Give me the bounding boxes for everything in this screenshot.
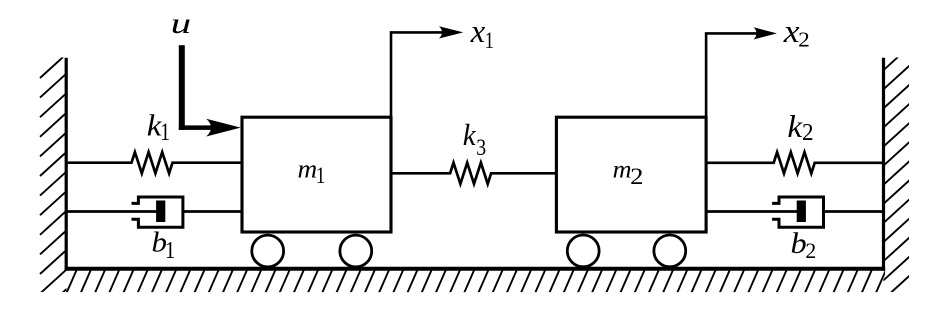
floor hatching <box>67 269 887 293</box>
svg-text:u: u <box>171 7 192 40</box>
wheel m2 left <box>567 235 599 267</box>
mass m2 <box>556 117 706 232</box>
wheel m1 left <box>252 235 284 267</box>
spring k2 <box>706 152 883 173</box>
svg-text:1: 1 <box>160 119 170 146</box>
right wall hatching <box>882 47 910 301</box>
spring k3 <box>391 163 556 184</box>
svg-text:k: k <box>463 118 477 152</box>
svg-text:2: 2 <box>802 120 814 146</box>
label b2 <box>791 228 817 263</box>
damper b2 <box>706 197 883 227</box>
label k1 <box>147 107 170 146</box>
svg-text:m: m <box>298 154 318 184</box>
wheel m2 right <box>654 235 686 267</box>
svg-text:2: 2 <box>798 28 810 52</box>
svg-text:1: 1 <box>485 28 494 53</box>
wheel m1 right <box>340 235 372 267</box>
mass m1 <box>242 117 391 232</box>
floor <box>65 267 886 271</box>
svg-text:2: 2 <box>630 164 643 189</box>
displacement arrow x1 <box>391 26 463 117</box>
label k3 <box>463 118 486 160</box>
force arrow u <box>179 45 241 136</box>
label m1 <box>298 154 326 189</box>
svg-text:3: 3 <box>476 134 486 160</box>
spring k1 <box>66 152 242 173</box>
svg-text:m: m <box>613 157 632 184</box>
label b1 <box>152 228 176 264</box>
svg-text:x: x <box>470 14 486 50</box>
svg-text:2: 2 <box>805 238 816 263</box>
right wall <box>882 58 885 271</box>
label u <box>171 7 192 40</box>
left wall <box>65 58 68 271</box>
label k2 <box>787 109 813 146</box>
label x1 <box>470 14 494 53</box>
label m2 <box>613 157 644 190</box>
svg-text:b: b <box>791 228 807 260</box>
svg-text:k: k <box>787 109 803 144</box>
label x2 <box>783 14 810 52</box>
svg-text:1: 1 <box>316 163 325 189</box>
damper b1 <box>66 197 242 227</box>
svg-text:1: 1 <box>165 237 175 264</box>
left wall hatching <box>40 53 68 313</box>
displacement arrow x2 <box>706 27 777 117</box>
